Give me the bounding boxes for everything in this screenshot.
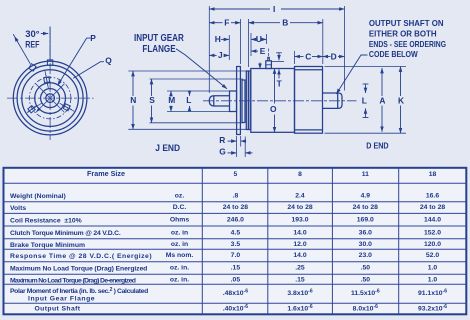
svg-text:K: K — [398, 96, 404, 106]
dimension T — [276, 53, 282, 79]
ext G tick — [244, 137, 246, 158]
bolt circle (dash-dot) — [29, 77, 71, 119]
top tab (90deg lug) — [47, 60, 52, 65]
svg-text:H: H — [215, 34, 221, 44]
svg-text:FLANGE: FLANGE — [142, 44, 175, 55]
svg-text:E: E — [260, 46, 266, 56]
svg-text:169.0: 169.0 — [357, 217, 374, 224]
svg-text:P: P — [90, 33, 96, 43]
column line label/5 — [201, 168, 203, 314]
second circle — [17, 65, 83, 131]
svg-text:Volts: Volts — [10, 205, 26, 212]
svg-text:144.0: 144.0 — [424, 217, 441, 224]
row line under coil — [4, 225, 467, 227]
third circle — [22, 70, 79, 127]
dimension M — [170, 91, 172, 112]
svg-text:Response Time @ 28 V.D.C.( Ene: Response Time @ 28 V.D.C.( Energize) — [10, 253, 152, 260]
dimension B — [249, 22, 323, 24]
svg-text:Q: Q — [105, 56, 112, 66]
leader Q — [73, 62, 104, 78]
svg-text:oz. in.: oz. in. — [170, 265, 189, 272]
30deg vertical extension — [49, 27, 51, 62]
svg-text:23.0: 23.0 — [359, 252, 372, 259]
svg-text:30.0: 30.0 — [359, 241, 372, 248]
L dim tails (D end) — [363, 83, 369, 85]
ext M top — [167, 90, 232, 92]
dimension K — [400, 67, 402, 134]
svg-text:J END: J END — [155, 143, 180, 153]
svg-text:REF: REF — [25, 39, 40, 49]
ext left of I/F/H/J — [208, 6, 210, 93]
svg-text:11: 11 — [362, 171, 369, 178]
svg-text:G: G — [219, 147, 226, 157]
dimension E — [251, 50, 258, 52]
svg-text:.50: .50 — [361, 277, 371, 284]
svg-text:A: A — [379, 96, 385, 106]
svg-text:U: U — [256, 34, 262, 44]
bolt radial 100deg — [45, 71, 48, 89]
column line 8/11 — [331, 168, 333, 314]
svg-text:Ms nom.: Ms nom. — [166, 252, 194, 259]
svg-text:F: F — [224, 18, 229, 28]
terminal pin — [268, 57, 270, 61]
dimension L (D end) — [365, 84, 367, 119]
svg-text:EITHER OR BOTH: EITHER OR BOTH — [369, 29, 437, 38]
bolt square at 100deg — [43, 74, 50, 86]
ext B/C/D at body right — [322, 19, 324, 64]
svg-text:30°: 30° — [25, 29, 40, 39]
table background — [4, 168, 467, 314]
bolt radial 340deg — [60, 103, 74, 111]
terminal centerline — [268, 49, 270, 60]
svg-text:.25: .25 — [295, 265, 305, 272]
svg-text:152.0: 152.0 — [424, 229, 441, 236]
J-end stub shaft rod — [209, 96, 229, 106]
row line under clutch — [4, 238, 467, 240]
leader output shaft note — [336, 55, 367, 94]
svg-text:S: S — [149, 95, 155, 105]
svg-text:36.0: 36.0 — [359, 229, 372, 236]
body section 1 (clutch housing) — [251, 69, 295, 133]
svg-text:Ohms: Ohms — [170, 217, 189, 224]
bolt radial 220deg — [28, 103, 43, 112]
svg-text:Maximum No Load Torque (Drag): Maximum No Load Torque (Drag) Energized — [10, 265, 147, 272]
row line under volts — [4, 212, 467, 214]
row weight — [10, 192, 439, 200]
svg-text:.15: .15 — [295, 277, 305, 284]
svg-text:24 to 28: 24 to 28 — [353, 204, 379, 211]
svg-text:Output Shaft: Output Shaft — [35, 305, 81, 312]
svg-text:D.C.: D.C. — [173, 204, 187, 211]
svg-text:3.5: 3.5 — [231, 241, 241, 248]
svg-text:5: 5 — [234, 171, 238, 178]
spoke arrow SW — [36, 107, 41, 112]
svg-text:oz. in.: oz. in. — [170, 277, 189, 284]
svg-text:.05: .05 — [231, 277, 241, 284]
ext R ticks — [236, 136, 238, 157]
shaft chamfer line — [337, 93, 339, 108]
svg-text:OUTPUT SHAFT ON: OUTPUT SHAFT ON — [369, 19, 444, 28]
row line under brake — [4, 248, 467, 250]
svg-text:oz. in: oz. in — [171, 241, 188, 248]
svg-text:R: R — [219, 135, 225, 145]
dimension F — [209, 22, 240, 24]
row coil resistance — [10, 217, 441, 225]
dimension O — [274, 69, 276, 133]
row brake torque — [10, 241, 441, 249]
ext S bottom — [150, 122, 244, 124]
svg-text:T: T — [277, 79, 283, 89]
svg-text:.15: .15 — [231, 265, 241, 272]
dimension L (J end) — [189, 92, 191, 111]
corner arrow at body top — [259, 63, 261, 69]
dimension J — [209, 54, 229, 56]
ext right of I/D — [344, 6, 346, 91]
svg-text:Polar Moment of Inertia (in. l: Polar Moment of Inertia (in. lb. sec.2 )… — [10, 287, 148, 295]
svg-text:.50: .50 — [361, 265, 371, 272]
mounting plate pair — [246, 71, 248, 130]
rod chamfer line — [213, 96, 215, 106]
row response time — [10, 252, 439, 260]
svg-text:Weight (Nominal): Weight (Nominal) — [10, 193, 66, 200]
row max no load energized — [10, 265, 437, 273]
row line under energized — [4, 273, 467, 275]
dimension N — [132, 71, 134, 129]
hub circle — [41, 89, 60, 108]
ext A/K bottom — [325, 132, 407, 134]
30deg slant line — [13, 34, 30, 64]
column line 11/18 — [398, 168, 400, 314]
svg-text:ENDS - SEE ORDERING: ENDS - SEE ORDERING — [369, 40, 446, 49]
row line under header — [4, 182, 467, 184]
svg-text:J: J — [218, 50, 223, 60]
svg-text:L: L — [186, 95, 191, 105]
svg-text:120.0: 120.0 — [424, 241, 441, 248]
svg-text:Brake Torque Minimum: Brake Torque Minimum — [10, 242, 85, 249]
ext S top — [150, 78, 244, 80]
svg-text:16.6: 16.6 — [426, 192, 439, 199]
svg-text:Coil Resistance ±10%: Coil Resistance ±10% — [10, 217, 82, 224]
outer circle — [13, 61, 87, 135]
svg-text:oz.: oz. — [175, 192, 185, 199]
svg-text:14.0: 14.0 — [293, 229, 306, 236]
svg-text:8: 8 — [298, 171, 302, 178]
ext N top — [128, 70, 246, 72]
svg-text:1.0: 1.0 — [428, 265, 438, 272]
D-end output shaft — [323, 93, 343, 108]
svg-text:CODE BELOW: CODE BELOW — [369, 50, 418, 59]
svg-text:N: N — [130, 95, 136, 105]
center hole — [46, 94, 55, 103]
svg-text:7.0: 7.0 — [231, 252, 241, 259]
dimension S — [151, 79, 153, 123]
horizontal centerline — [7, 97, 94, 99]
dimension U — [251, 38, 267, 40]
terminal block — [266, 61, 272, 69]
main centerline — [203, 100, 357, 102]
svg-text:INPUT GEAR: INPUT GEAR — [134, 33, 184, 44]
svg-text:D: D — [331, 51, 337, 61]
svg-text:Maximum No Load Torque (Drag): Maximum No Load Torque (Drag) De-energiz… — [10, 277, 136, 284]
svg-text:14.0: 14.0 — [293, 252, 306, 259]
diagonal spoke 45 — [36, 84, 65, 113]
ext M bottom — [167, 111, 232, 113]
row clutch torque — [10, 229, 441, 237]
svg-text:246.0: 246.0 — [227, 217, 244, 224]
svg-text:L: L — [362, 96, 367, 106]
spacer collar — [242, 80, 245, 123]
svg-text:O: O — [270, 104, 277, 114]
ext T top — [272, 61, 284, 63]
dimension D — [323, 56, 345, 58]
svg-text:4.5: 4.5 — [231, 229, 241, 236]
row polar moment — [10, 287, 447, 302]
svg-text:Input Gear Flange: Input Gear Flange — [28, 295, 95, 302]
input gear flange disc — [237, 67, 241, 135]
dimension G — [228, 152, 253, 154]
dimension H — [221, 38, 229, 40]
row output shaft — [35, 304, 448, 312]
svg-text:2.4: 2.4 — [295, 192, 305, 199]
gear circle — [35, 83, 66, 114]
svg-text:24 to 28: 24 to 28 — [420, 204, 446, 211]
shaft step block — [230, 91, 237, 112]
bolt square at 340deg — [61, 103, 73, 112]
column line 5/8 — [267, 168, 269, 314]
30deg tab (lug) — [29, 64, 36, 71]
body2 inner lines — [295, 69, 323, 71]
row line under weight — [4, 201, 467, 203]
dimension I — [209, 8, 344, 10]
bolt square at 220deg — [26, 104, 38, 115]
dimension R — [228, 140, 246, 142]
ext B left — [248, 19, 250, 67]
ext N bottom — [128, 128, 246, 130]
dimension C — [295, 56, 323, 58]
svg-text:I: I — [273, 4, 275, 14]
ext F right — [240, 19, 242, 64]
ext U ticks — [250, 33, 252, 56]
svg-text:B: B — [282, 18, 288, 28]
row line under response — [4, 261, 467, 263]
svg-text:oz. in: oz. in — [171, 229, 188, 236]
row max no load de-energized — [10, 277, 437, 285]
ext C boundary — [294, 51, 296, 64]
svg-text:.8: .8 — [233, 192, 239, 199]
svg-text:4.9: 4.9 — [361, 192, 371, 199]
ext H/J tick — [228, 35, 230, 60]
table header text — [87, 169, 436, 178]
svg-text:1.0: 1.0 — [428, 277, 438, 284]
svg-text:12.0: 12.0 — [293, 241, 306, 248]
30deg dimension arrow — [41, 33, 48, 35]
30deg slant arrowhead — [14, 36, 18, 42]
row line under polar — [4, 302, 467, 304]
svg-text:193.0: 193.0 — [291, 217, 308, 224]
svg-text:24 to 28: 24 to 28 — [287, 204, 313, 211]
svg-text:M: M — [168, 95, 175, 105]
svg-text:D END: D END — [366, 140, 388, 150]
svg-text:24 to 28: 24 to 28 — [223, 204, 249, 211]
vertical centerline — [49, 27, 51, 140]
dimension A — [381, 68, 383, 132]
svg-text:18: 18 — [429, 171, 437, 178]
leader P — [58, 38, 91, 85]
body section 2 (end bell) — [295, 67, 323, 134]
ext A/K top — [325, 66, 407, 68]
leader input gear flange — [176, 49, 227, 89]
svg-text:52.0: 52.0 — [426, 252, 439, 259]
svg-text:Frame Size: Frame Size — [87, 169, 125, 178]
svg-text:C: C — [305, 51, 311, 61]
row volts — [10, 204, 445, 212]
extension lines — [128, 6, 406, 157]
row line under de-energized — [4, 283, 467, 285]
svg-text:Clutch Torque Minimum @ 24 V.D: Clutch Torque Minimum @ 24 V.D.C. — [10, 230, 121, 237]
diagonal spoke 135 — [36, 84, 65, 113]
